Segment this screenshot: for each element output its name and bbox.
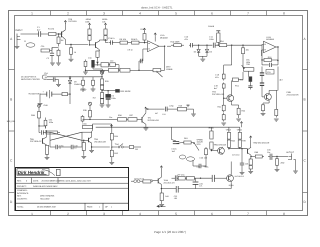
capacitor C5 [84, 60, 108, 72]
wire J1 to C1 [24, 33, 37, 35]
svg-text:100k/B: 100k/B [208, 25, 215, 28]
svg-text:MC4558: MC4558 [266, 38, 274, 41]
capacitor C4 bypass [92, 60, 103, 70]
svg-text:GND: GND [44, 104, 49, 107]
wire Q1 collector to VCC [64, 21, 66, 30]
transistor TR62 [248, 147, 252, 155]
label U1A [160, 34, 168, 40]
wire U1A output [159, 46, 165, 47]
svg-text:1M: 1M [135, 148, 138, 151]
border zone labels [9, 11, 308, 216]
jack sleeve cap [47, 77, 59, 81]
svg-text:COUNTRY:: COUNTRY: [17, 197, 28, 200]
capacitor C26 [58, 140, 82, 149]
label TR4 [30, 138, 42, 143]
resistor R14 [171, 41, 185, 47]
resistor R3 [57, 49, 60, 58]
svg-text:C15: C15 [267, 71, 271, 74]
resistor R70 [177, 176, 185, 180]
VCC above R26 [100, 71, 103, 77]
svg-text:100u: 100u [111, 97, 115, 100]
label DC ADAPTER [21, 76, 40, 82]
svg-text:PROJECT:: PROJECT: [17, 185, 27, 188]
svg-text:26 DECEMBER 2007: 26 DECEMBER 2007 [42, 179, 62, 182]
label TR66 [164, 179, 176, 184]
svg-text:2SC1815-GR: 2SC1815-GR [212, 93, 225, 96]
svg-text:10k: 10k [102, 20, 105, 23]
svg-text:A: A [10, 37, 13, 41]
resistor R31 [46, 131, 60, 134]
svg-text:7: 7 [247, 212, 249, 216]
svg-text:R8 10k: R8 10k [120, 38, 126, 41]
label TR1 [148, 117, 160, 122]
label right net [287, 91, 300, 96]
ground under C5 [83, 70, 88, 74]
net arrow bottom [156, 205, 165, 208]
svg-text:1: 1 [99, 205, 101, 208]
wire TR3 collector [269, 67, 278, 93]
top box right cell [82, 123, 93, 133]
svg-text:TR60A: TR60A [208, 126, 215, 129]
svg-text:HOLLAND: HOLLAND [40, 197, 50, 200]
VCC TR62 [250, 136, 270, 145]
svg-text:MC4558: MC4558 [160, 36, 168, 39]
svg-text:D: D [303, 200, 306, 204]
svg-text:DIRK HENDRIK: DIRK HENDRIK [40, 195, 55, 198]
diode D2 [194, 45, 201, 56]
resistor R72 [245, 159, 252, 170]
svg-text:danor_brd.SCH - SHEET1: danor_brd.SCH - SHEET1 [141, 6, 173, 9]
svg-text:REV:: REV: [17, 179, 22, 182]
capacitor C1 [37, 26, 44, 37]
svg-text:180: 180 [174, 197, 177, 200]
logo Dirk Hendrik [17, 169, 55, 176]
svg-text:R37: R37 [130, 114, 134, 117]
svg-text:2SC1815-GR: 2SC1815-GR [148, 119, 160, 122]
title row project [16, 188, 129, 200]
ground under J1 [15, 40, 20, 49]
wire emitter out [250, 155, 253, 159]
svg-text:R27: R27 [93, 97, 96, 100]
wire R38 gnd [187, 109, 196, 116]
svg-text:DWG: dan0_black_noise_box.SCH: DWG: dan0_black_noise_box.SCH [60, 179, 92, 182]
logo side cell [57, 169, 61, 175]
REF net flag [116, 89, 132, 93]
svg-text:SPD: SPD [197, 143, 202, 146]
label U1B [266, 36, 274, 41]
svg-text:6: 6 [211, 12, 213, 16]
svg-text:C30A: C30A [82, 123, 87, 126]
wire TR5 base res [81, 140, 88, 159]
wire bottom rail [161, 188, 176, 190]
capacitor C16 [260, 83, 264, 91]
svg-text:R40: R40 [114, 135, 118, 138]
svg-text:1: 1 [31, 12, 33, 16]
svg-text:C3 47n: C3 47n [108, 37, 114, 40]
ground under R27 [100, 104, 105, 108]
svg-text:R9 47k: R9 47k [131, 38, 137, 41]
svg-text:REF NODE: REF NODE [120, 90, 131, 93]
svg-text:2M2: 2M2 [281, 162, 286, 165]
capacitor C7 [80, 79, 87, 92]
resistor R4A [41, 45, 52, 52]
capacitor C28 [197, 165, 227, 182]
svg-text:4: 4 [139, 212, 141, 216]
svg-text:COMPANY:: COMPANY: [17, 189, 28, 192]
svg-text:R36: R36 [118, 114, 122, 117]
svg-text:2SC1815-GR: 2SC1815-GR [287, 94, 300, 97]
wire U1B out [276, 46, 279, 60]
oval marker A [179, 155, 185, 159]
capacitor C7B [91, 79, 96, 92]
svg-text:4: 4 [139, 12, 141, 16]
wire TR2 base [223, 90, 227, 104]
resistor R5 [85, 18, 91, 40]
svg-text:D: D [10, 200, 13, 204]
wire LFO top rail [96, 127, 240, 139]
label 9V BATTERY [29, 93, 42, 96]
title row REV/DATE/DWG [16, 178, 129, 188]
wire R15 node [218, 45, 219, 46]
LFO cross vertical right [81, 132, 83, 140]
svg-text:B: B [10, 98, 12, 102]
svg-text:2SC1815-R: 2SC1815-R [235, 175, 245, 178]
svg-text:P28: P28 [242, 140, 245, 143]
label Q1 [68, 18, 77, 23]
LFO cross wire 2 [50, 132, 82, 140]
svg-text:R14 560R: R14 560R [171, 41, 181, 44]
capacitor C22 [150, 107, 178, 112]
svg-text:100k: 100k [85, 20, 89, 23]
svg-text:5: 5 [175, 12, 177, 16]
svg-text:C30: C30 [41, 45, 45, 48]
svg-text:9V BATTERY: 9V BATTERY [29, 93, 42, 96]
svg-text:47n: 47n [185, 38, 188, 41]
wire diodes gnd [199, 56, 207, 61]
wire branch down x224 [224, 45, 232, 72]
svg-text:R38: R38 [179, 104, 182, 107]
label 4k7 wire [155, 104, 174, 116]
svg-text:C21 1n0: C21 1n0 [232, 154, 239, 157]
oval marker B [187, 157, 195, 161]
capacitor C6 [106, 90, 116, 100]
sheet header text [141, 6, 173, 9]
capacitor C21A [172, 140, 180, 153]
capacitor C31 [44, 118, 53, 129]
transistor TR66 left [153, 177, 162, 184]
capacitor C11 [209, 36, 215, 48]
svg-text:R68: R68 [255, 151, 260, 154]
svg-text:TO8: TO8 [246, 63, 250, 66]
svg-text:8: 8 [283, 212, 285, 216]
svg-text:R1 1M: R1 1M [48, 28, 54, 31]
svg-text:BQ5A: BQ5A [229, 184, 235, 187]
svg-text:1u: 1u [74, 147, 76, 150]
wire vref rail [83, 76, 103, 78]
svg-text:C: C [303, 159, 306, 163]
resistor Q1 emitter [70, 44, 76, 58]
ground under C4 [100, 71, 105, 73]
resistor R43 small [123, 146, 138, 151]
resistor R40 [110, 127, 118, 146]
op-amp U1B [264, 41, 277, 53]
wire TR2 emitter [232, 102, 239, 105]
VREF bar R15 [216, 31, 220, 33]
resistor R64 pair [226, 127, 236, 149]
svg-text:R64: R64 [231, 140, 235, 143]
wire to U1A +in [141, 42, 148, 44]
node A junction [58, 33, 63, 34]
VCC above R35 [88, 102, 91, 108]
resistor R30 [31, 108, 41, 122]
svg-text:TOTAL:: TOTAL: [17, 205, 24, 208]
VCC above R5 [88, 23, 90, 29]
svg-text:DANO BLACK NOISE BOX: DANO BLACK NOISE BOX [33, 185, 58, 188]
resistor R22 emitter [236, 105, 246, 121]
svg-text:2SC1815-GP: 2SC1815-GP [30, 140, 42, 143]
svg-text:OUTPUT: OUTPUT [286, 151, 295, 154]
fb row1 box2 [109, 59, 120, 70]
svg-text:100k/B: 100k/B [166, 68, 173, 71]
wire TR5 emitter [89, 143, 94, 153]
svg-text:2SC1815: 2SC1815 [68, 20, 77, 23]
label BQ5A [229, 184, 235, 187]
capacitor C24 [193, 160, 207, 168]
wire R35 down [86, 119, 109, 120]
toggle switch SPST [112, 144, 124, 148]
wire R35 node down [91, 124, 94, 132]
op-amp U1A [148, 41, 160, 52]
svg-text:PUSH PUSH: PUSH PUSH [134, 177, 145, 180]
LFO rail vcc tap [92, 124, 112, 128]
resistor R61 [182, 137, 193, 144]
wire collector node [105, 39, 109, 42]
svg-text:2SC1815-GR: 2SC1815-GR [94, 141, 106, 144]
LFO cross wire 1 [50, 132, 82, 140]
svg-text:1KR_D01: 1KR_D01 [7, 120, 17, 123]
capacitor C33 [174, 186, 178, 200]
capacitor C27 [172, 175, 178, 181]
wire TR2 collector [231, 80, 234, 95]
svg-text:0: 0 [26, 179, 28, 182]
resistor R16 [217, 40, 230, 47]
svg-text:1k: 1k [74, 51, 76, 54]
DC jack [42, 75, 47, 79]
svg-text:NET:: NET: [17, 195, 22, 198]
svg-text:4k7: 4k7 [280, 79, 284, 82]
wire U1B +in [262, 50, 264, 56]
wire R5 to Q2 base [89, 40, 96, 45]
wire TR66R emitter [230, 182, 232, 188]
LFO cross vertical left [46, 132, 50, 140]
transistor Q1 [59, 30, 66, 40]
wire U1A out right [167, 45, 171, 47]
wire to tone [230, 45, 262, 46]
capacitor C30 [267, 149, 274, 160]
svg-text:26 DECEMBER 2007: 26 DECEMBER 2007 [37, 205, 57, 208]
wire osc out [202, 157, 206, 167]
sheet border frame [9, 11, 308, 216]
svg-text:R45: R45 [165, 195, 168, 198]
transistor TR5 [89, 137, 92, 143]
resistor R71 [185, 176, 194, 180]
svg-text:PAGE: PAGE [87, 205, 93, 208]
jack J1 [17, 34, 24, 40]
resistor R1 [46, 28, 59, 36]
wire bias tap [52, 48, 59, 50]
transistor TR64 jfet [218, 147, 225, 155]
label TR2 [212, 91, 225, 96]
wire VREF node [101, 90, 115, 91]
svg-text:R16: R16 [220, 40, 224, 43]
resistor R68 [254, 151, 265, 158]
svg-text:C22: C22 [162, 113, 165, 116]
svg-text:6: 6 [211, 212, 213, 216]
resistor R7 emitter [88, 50, 99, 62]
VCC above R10 [143, 28, 145, 31]
svg-text:DC ADAPTER IS: DC ADAPTER IS [21, 76, 37, 79]
svg-text:3: 3 [103, 212, 105, 216]
wire TR66L emitter [161, 184, 162, 189]
svg-text:Page 1/1 (26 Dec 2007): Page 1/1 (26 Dec 2007) [154, 230, 186, 234]
svg-text:R61: R61 [184, 137, 189, 140]
svg-text:2SC1815-GR: 2SC1815-GR [164, 181, 176, 184]
battery BT1 [43, 90, 52, 98]
capacitor C34 [240, 162, 245, 175]
wire TR62 base [229, 148, 248, 162]
transistor TR66 right [227, 174, 245, 182]
footswitch DPDT [131, 177, 151, 183]
resistor R10 pullup [141, 28, 147, 42]
svg-text:R35: R35 [83, 109, 88, 112]
svg-text:3: 3 [103, 12, 105, 16]
resistor R62 [200, 147, 208, 160]
VREF bar R38 [187, 105, 190, 107]
resistor R15 vert [208, 25, 220, 45]
wire batt minus [38, 94, 49, 107]
svg-text:DATE:: DATE: [33, 179, 39, 182]
node R40 bottom [111, 146, 112, 147]
wire battery [52, 93, 62, 95]
svg-text:U1.A: U1.A [160, 34, 165, 37]
capacitor C15 [260, 67, 264, 83]
wire DC to node [47, 76, 83, 77]
capacitor C2 [47, 48, 55, 61]
resistor R24 [274, 90, 279, 121]
label TR64 [214, 144, 226, 147]
ground under R42 [109, 160, 114, 165]
resistor R35 [83, 108, 92, 119]
svg-text:10k: 10k [246, 49, 249, 52]
label C21 [232, 154, 239, 157]
pot SPEED [193, 138, 204, 150]
ground under Q1 emitter res [69, 58, 74, 62]
fb row1 box1 [98, 63, 109, 67]
svg-text:TR64 2SK118: TR64 2SK118 [214, 144, 226, 147]
resistor R2 [57, 34, 64, 47]
wire to U1A -in [143, 49, 148, 61]
svg-text:C2: C2 [47, 57, 49, 60]
svg-text:47u: 47u [215, 76, 218, 79]
wire U1B -in [262, 44, 264, 45]
svg-text:C30: C30 [110, 59, 113, 62]
wire TR3 base [262, 91, 265, 97]
svg-text:D2: D2 [194, 50, 196, 53]
svg-text:NEGATIVE CENTER: NEGATIVE CENTER [21, 78, 40, 81]
wire footswitch [151, 180, 153, 182]
label 10n [109, 116, 112, 119]
switch box SW [62, 93, 71, 105]
net arrow at TR1 [145, 107, 148, 109]
resistor R26 [100, 77, 109, 91]
title block outer box [16, 168, 129, 211]
svg-text:TOG: TOG [115, 143, 120, 146]
svg-text:C: C [10, 159, 13, 163]
resistor R65 pair [237, 127, 246, 149]
ground under C6 [106, 99, 111, 107]
wire C3 to R8 [114, 42, 118, 44]
wire R43 right [137, 146, 141, 148]
ground under R3 [56, 58, 61, 66]
wire to output jack [274, 156, 285, 158]
svg-text:1u0s: 1u0s [205, 165, 209, 168]
wire inverting leg down [138, 61, 139, 71]
wire Q2 collector [99, 40, 105, 41]
svg-text:C20 1n0: C20 1n0 [200, 157, 208, 160]
wire jack sleeve gnd [56, 78, 71, 87]
svg-text:TR62 2SC1815-GR: TR62 2SC1815-GR [253, 142, 270, 145]
svg-text:P6B: P6B [31, 114, 35, 117]
VCC above R6 [104, 23, 106, 29]
wire bottom rail 2 [178, 188, 231, 190]
jack J2 [285, 154, 292, 160]
svg-text:PU1: PU1 [235, 85, 240, 88]
svg-text:OF: OF [105, 205, 109, 208]
volume pot VOL [242, 56, 254, 72]
svg-text:A: A [304, 37, 307, 41]
transistor TR1 [142, 113, 146, 125]
resistor R25 collector [232, 72, 243, 88]
svg-text:7: 7 [247, 12, 249, 16]
capacitor C8 filter [39, 130, 46, 134]
wire c21a [176, 143, 182, 144]
svg-text:B: B [304, 98, 306, 102]
resistor R27 [93, 91, 104, 104]
svg-text:C4A: C4A [88, 56, 92, 59]
label C15 box [266, 70, 274, 75]
transistor TR2 [227, 94, 234, 102]
svg-text:1: 1 [31, 212, 33, 216]
transistor TR4 [43, 137, 47, 145]
wire C1 to R1 [43, 33, 46, 35]
resistor R6 [102, 18, 108, 40]
svg-text:1M: 1M [61, 39, 64, 42]
resistor R17 [242, 45, 249, 56]
wire to C31 [38, 122, 45, 133]
wire TR3 emitter [263, 101, 269, 103]
wire clip node [194, 45, 212, 46]
resistor R21 base [218, 104, 226, 113]
svg-text:10n: 10n [109, 116, 112, 119]
svg-text:+: + [43, 91, 45, 94]
ground under C2 [50, 58, 55, 65]
title row total/page [16, 203, 129, 210]
diode D3 [205, 45, 211, 56]
resistor R8 [118, 38, 130, 44]
label TR5 [94, 138, 106, 143]
resistor R9 [128, 38, 142, 52]
svg-text:C2B: C2B [197, 165, 201, 168]
